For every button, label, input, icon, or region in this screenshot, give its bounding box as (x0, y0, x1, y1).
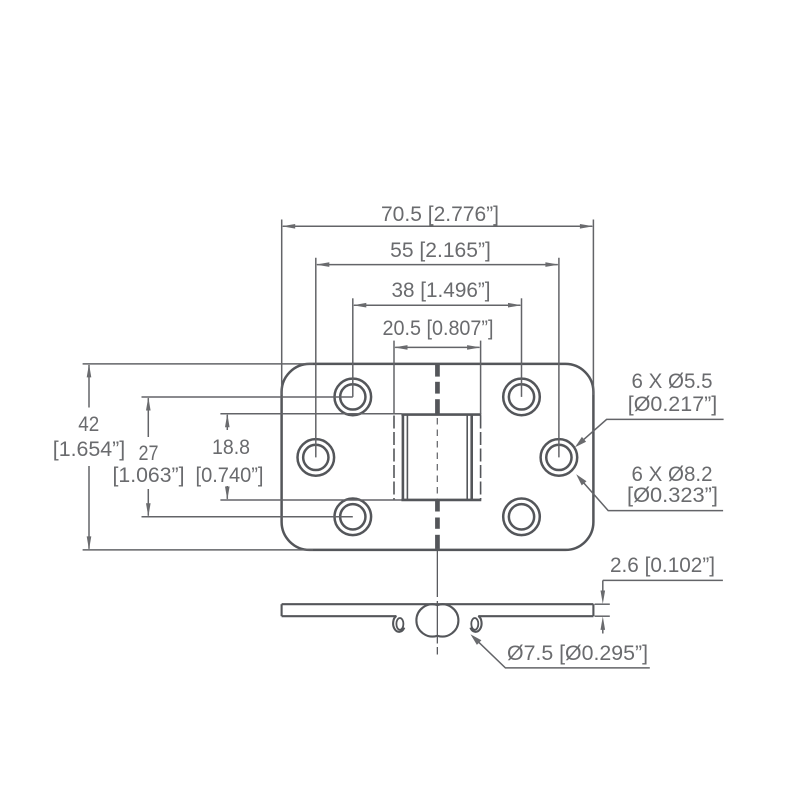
dimension 55 line (316, 262, 559, 267)
side view centerline (436, 551, 438, 655)
leader 6xO5.5 (575, 419, 724, 447)
hole top-right (503, 379, 540, 416)
leader O7.5 (471, 634, 650, 668)
center gap bar lower (435, 500, 441, 549)
svg-text:27: 27 (139, 441, 159, 465)
extension lines (83, 220, 594, 550)
dimension 42 line (87, 364, 92, 550)
svg-text:[Ø0.217”]: [Ø0.217”] (628, 392, 718, 416)
hole mid-left (298, 439, 335, 476)
knuckle hidden line left (393, 416, 395, 500)
right curl hook inner (471, 618, 478, 630)
side view left end cap (281, 604, 283, 616)
side view right end cap (592, 604, 594, 616)
svg-text:2.6 [0.102”]: 2.6 [0.102”] (610, 553, 715, 577)
knuckle left edge lines (403, 415, 408, 500)
svg-text:[1.654”]: [1.654”] (53, 437, 126, 461)
knuckle right edge lines (467, 415, 472, 500)
dimension 20.5 line (394, 345, 481, 350)
hole top-left (335, 379, 372, 416)
svg-text:[0.740”]: [0.740”] (196, 463, 264, 487)
side view bottom edge left (282, 615, 397, 617)
svg-text:Ø7.5 [Ø0.295”]: Ø7.5 [Ø0.295”] (507, 641, 648, 665)
svg-text:[1.063”]: [1.063”] (113, 463, 185, 487)
svg-text:55 [2.165”]: 55 [2.165”] (390, 238, 491, 262)
svg-text:6 X Ø5.5: 6 X Ø5.5 (632, 369, 713, 393)
svg-text:38 [1.496”]: 38 [1.496”] (392, 278, 491, 302)
knuckle bottom edge (401, 499, 481, 502)
svg-text:20.5 [0.807”]: 20.5 [0.807”] (383, 316, 494, 340)
hole bottom-right (503, 499, 540, 536)
svg-text:6 X Ø8.2: 6 X Ø8.2 (632, 462, 713, 486)
dimension 2.6 (595, 580, 723, 633)
knuckle centerline (436, 418, 438, 499)
svg-text:70.5 [2.776”]: 70.5 [2.776”] (381, 202, 499, 226)
center gap bar upper (435, 365, 441, 415)
dimension 18.8 line (225, 414, 230, 500)
knuckle top edge (401, 413, 481, 416)
dimension 27 line (146, 397, 151, 517)
dimension 38 line (353, 303, 522, 308)
left curl hook inner (396, 618, 403, 630)
hole mid-right (541, 439, 578, 476)
knuckle hidden line right (480, 416, 482, 500)
svg-text:42: 42 (78, 412, 99, 436)
left knuckle barrel circle (437, 604, 458, 636)
svg-text:[Ø0.323”]: [Ø0.323”] (627, 483, 718, 507)
side view top edge (282, 603, 594, 605)
side view bottom edge right (478, 615, 593, 617)
hole bottom-left (335, 499, 372, 536)
leader 6xO8.2 (576, 474, 723, 510)
right curl hook outer (470, 616, 481, 632)
right knuckle barrel circle (416, 604, 437, 636)
hinge body outline (top view) (282, 364, 594, 550)
dimension 70.5 line (282, 224, 594, 229)
svg-text:18.8: 18.8 (212, 435, 250, 459)
left curl hook outer (393, 616, 404, 632)
